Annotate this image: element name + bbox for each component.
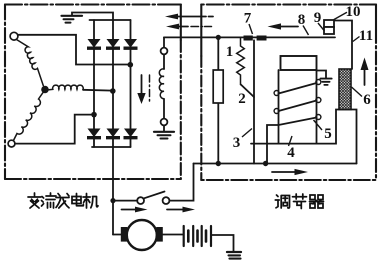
leader 6 [352, 87, 363, 97]
wire [163, 99, 165, 119]
char 器 [310, 195, 324, 208]
coil loop ends (left) [274, 91, 279, 96]
svg-text:2: 2 [238, 91, 246, 107]
leader 4 [289, 136, 293, 146]
svg-text:7: 7 [244, 11, 252, 27]
wire: regulator bottom bus [194, 163, 357, 165]
wire: terminal C to column 1 [15, 115, 94, 144]
ground (relay coil top) [317, 71, 332, 85]
ground (generator top, on rectifier positive bus) [62, 13, 114, 23]
terminal C circle [8, 140, 15, 147]
svg-text:6: 6 [363, 92, 371, 108]
wire: rectifier output down to switch/motor [112, 147, 114, 235]
wire: rectifier bottom bus [92, 146, 131, 148]
char 交 [28, 193, 41, 208]
node: joins column 3 [128, 62, 134, 68]
relay coil left edge [278, 70, 280, 144]
coil turn 1 [279, 83, 317, 94]
svg-text:10: 10 [346, 4, 361, 20]
diode D2 (top row middle) [107, 40, 120, 50]
wire: field terminal down [163, 54, 165, 69]
terminal A circle [10, 32, 18, 40]
resistor R (box style) on vertical wire [217, 37, 219, 163]
wire: terminal A to column 3 [18, 35, 130, 65]
svg-text:9: 9 [314, 10, 322, 26]
char 电 [72, 194, 83, 206]
field winding terminal (top circle) [161, 48, 168, 55]
current arrow (right, above bottom border) [272, 169, 308, 175]
wire: output to switch [113, 200, 137, 202]
diode D4 (bottom row left) [88, 129, 101, 139]
wire: field terminal to bus C [163, 37, 165, 47]
ground (battery) [227, 252, 241, 259]
wire: bus C (field wire into regulator) [164, 36, 335, 38]
current arrow (right, below switch right) [167, 207, 195, 213]
diode D6 (bottom row right) [124, 129, 137, 139]
char 调 [275, 195, 289, 208]
coil turn 3 + exit wire left [267, 118, 317, 164]
svg-text:1: 1 [226, 44, 234, 60]
wire: phase column 3 [130, 20, 132, 147]
stator winding W2 (horizontal) [49, 85, 83, 90]
diode D5 (bottom row middle) [107, 129, 120, 139]
node: junction at output wire [110, 198, 115, 203]
field bottom terminal circle [161, 119, 168, 126]
leader 7 [249, 24, 253, 34]
stator winding W1 (to terminal A) [17, 40, 44, 86]
motor M (load) [113, 220, 183, 250]
coil loop ends (right) [316, 80, 321, 85]
contact points 9/10 (stacked contact box) [324, 20, 334, 27]
wire: resistor 1 bottom to contact arm (diagonal) [241, 85, 254, 98]
wire 11 (contact to resistor 6) [334, 21, 353, 70]
char 发 [56, 194, 69, 209]
svg-text:4: 4 [287, 145, 295, 161]
coil turn 2 [279, 101, 317, 112]
switch (ignition) circles and blade [137, 197, 144, 204]
stator winding W3 (to terminal C) [13, 93, 42, 141]
stator neutral node [41, 86, 49, 94]
node: bottom bus junction [216, 161, 221, 166]
wire W2 to phase column 2 [83, 89, 113, 92]
relay coil right edge [316, 70, 318, 144]
wire: phase column 1 [93, 20, 95, 147]
diode D3 (top row right) [124, 40, 137, 50]
regulator enclosure (dash-dot box) [201, 5, 376, 181]
leader 5 [314, 120, 323, 130]
label: 调节器 (regulator), drawn strokes [275, 194, 323, 209]
ground (field winding) [154, 125, 174, 138]
svg-text:3: 3 [233, 135, 241, 151]
char 流 [42, 193, 57, 208]
leader 8 [303, 26, 309, 36]
node: bus C junction [216, 35, 221, 40]
node: joins column 1 [91, 112, 97, 118]
current arrow (left, on wire 8) [268, 23, 299, 29]
node: coil bottom to bus [263, 161, 268, 166]
current arrow (up, beside resistor 6) [361, 58, 369, 86]
label: 交流发电机 (AC generator), drawn strokes [28, 193, 98, 208]
wire: rectifier top bus [90, 19, 131, 21]
wire: battery to ground [212, 235, 233, 251]
node: neutral wire joins column 2 [110, 88, 116, 94]
leader 11 [353, 37, 360, 42]
wire B (output, arrow left, dash-dot tail) [166, 24, 212, 30]
generator enclosure (dash-dot box) [5, 5, 181, 180]
leader to label 10 [334, 13, 347, 20]
leader 3 [242, 129, 252, 138]
relay armature top plate [281, 56, 317, 70]
dash-dot current path mark [149, 75, 151, 102]
char 节 [293, 194, 307, 209]
wire: bottom bus down to switch [170, 164, 194, 201]
field winding (rotor coil) [159, 69, 164, 99]
current arrow (right, below switch left) [122, 207, 148, 213]
leader 9 [318, 23, 325, 31]
resistor 1 (zigzag) [237, 37, 245, 84]
wire: contact arm down to bottom bus [253, 40, 255, 163]
diode D1 (top row left) [88, 40, 101, 50]
wire: phase column 2 [112, 20, 114, 147]
field current arrow (down) [137, 75, 145, 104]
char 机 [83, 194, 98, 209]
wire A (output to battery, arrow left) [165, 14, 213, 20]
armature frame / yoke [251, 110, 357, 164]
resistor 6 (hatched box) [339, 69, 351, 110]
battery [184, 226, 211, 246]
svg-text:8: 8 [298, 12, 306, 28]
svg-text:5: 5 [324, 126, 332, 142]
svg-text:11: 11 [359, 28, 373, 44]
contact 7 (fixed contact bar, with gap) [244, 36, 267, 41]
